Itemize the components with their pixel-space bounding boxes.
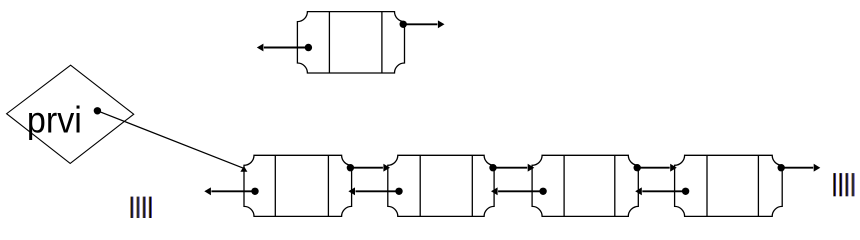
svg-text:prvi: prvi (27, 99, 82, 141)
